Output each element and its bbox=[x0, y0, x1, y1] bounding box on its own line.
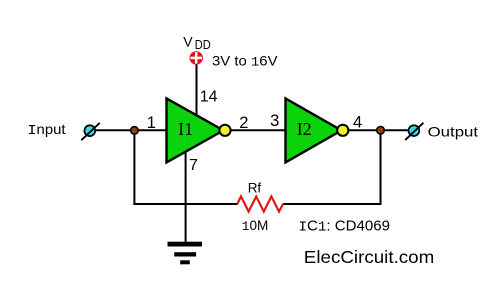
svg-text:3V to 16V: 3V to 16V bbox=[212, 52, 278, 69]
svg-text:ElecCircuit.com: ElecCircuit.com bbox=[304, 247, 435, 267]
svg-text:I2: I2 bbox=[297, 119, 312, 139]
svg-text:14: 14 bbox=[200, 88, 218, 105]
inverter I1 bbox=[167, 98, 231, 162]
svg-text:7: 7 bbox=[189, 157, 198, 174]
junction output node bbox=[377, 127, 385, 135]
VDD supply terminal bbox=[190, 51, 203, 64]
wire I2 output to output terminal bbox=[348, 129, 409, 131]
wire feedback right vertical bbox=[380, 130, 382, 204]
svg-text:3: 3 bbox=[270, 112, 279, 130]
junction input node bbox=[131, 127, 139, 135]
svg-text:10M: 10M bbox=[242, 217, 269, 234]
ground bbox=[168, 242, 203, 265]
svg-text:I1: I1 bbox=[178, 119, 193, 139]
wire feedback left horizontal bbox=[133, 203, 237, 205]
wire VDD to pin 14 bbox=[196, 65, 198, 120]
svg-text:IC1: CD4069: IC1: CD4069 bbox=[299, 217, 390, 235]
svg-text:Input: Input bbox=[28, 121, 66, 139]
wire I1 output to I2 input bbox=[230, 129, 287, 131]
svg-text:DD: DD bbox=[195, 37, 211, 52]
svg-text:V: V bbox=[183, 34, 193, 50]
resistor Rf bbox=[237, 180, 283, 211]
label VDD bbox=[183, 34, 211, 52]
wire feedback left vertical bbox=[133, 130, 135, 205]
wire pin 7 to ground bbox=[185, 150, 187, 244]
svg-text:4: 4 bbox=[353, 114, 362, 132]
svg-text:2: 2 bbox=[239, 114, 248, 132]
inverter I2 bbox=[286, 98, 349, 162]
wire feedback right horizontal bbox=[283, 203, 382, 205]
svg-text:Rf: Rf bbox=[248, 180, 262, 195]
svg-text:Output: Output bbox=[428, 124, 479, 140]
output terminal bbox=[405, 123, 423, 140]
input terminal bbox=[81, 123, 99, 140]
wire input to I1 bbox=[96, 129, 168, 131]
svg-text:1: 1 bbox=[147, 114, 156, 132]
